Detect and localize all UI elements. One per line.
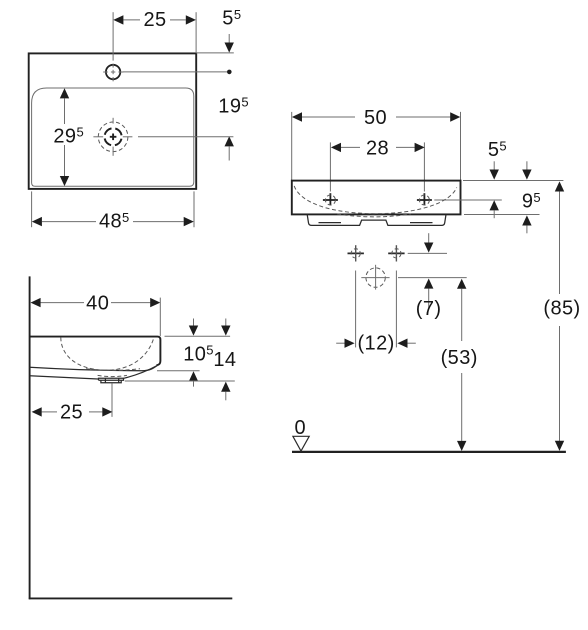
svg-text:(12): (12) — [358, 333, 395, 355]
svg-text:50: 50 — [364, 107, 387, 129]
svg-text:40: 40 — [86, 292, 109, 314]
svg-text:25: 25 — [60, 402, 83, 424]
svg-text:28: 28 — [366, 138, 389, 160]
svg-text:14: 14 — [213, 349, 236, 371]
svg-text:(53): (53) — [441, 347, 478, 369]
svg-text:(85): (85) — [543, 298, 580, 320]
svg-text:25: 25 — [143, 9, 166, 31]
svg-text:(7): (7) — [416, 298, 442, 320]
